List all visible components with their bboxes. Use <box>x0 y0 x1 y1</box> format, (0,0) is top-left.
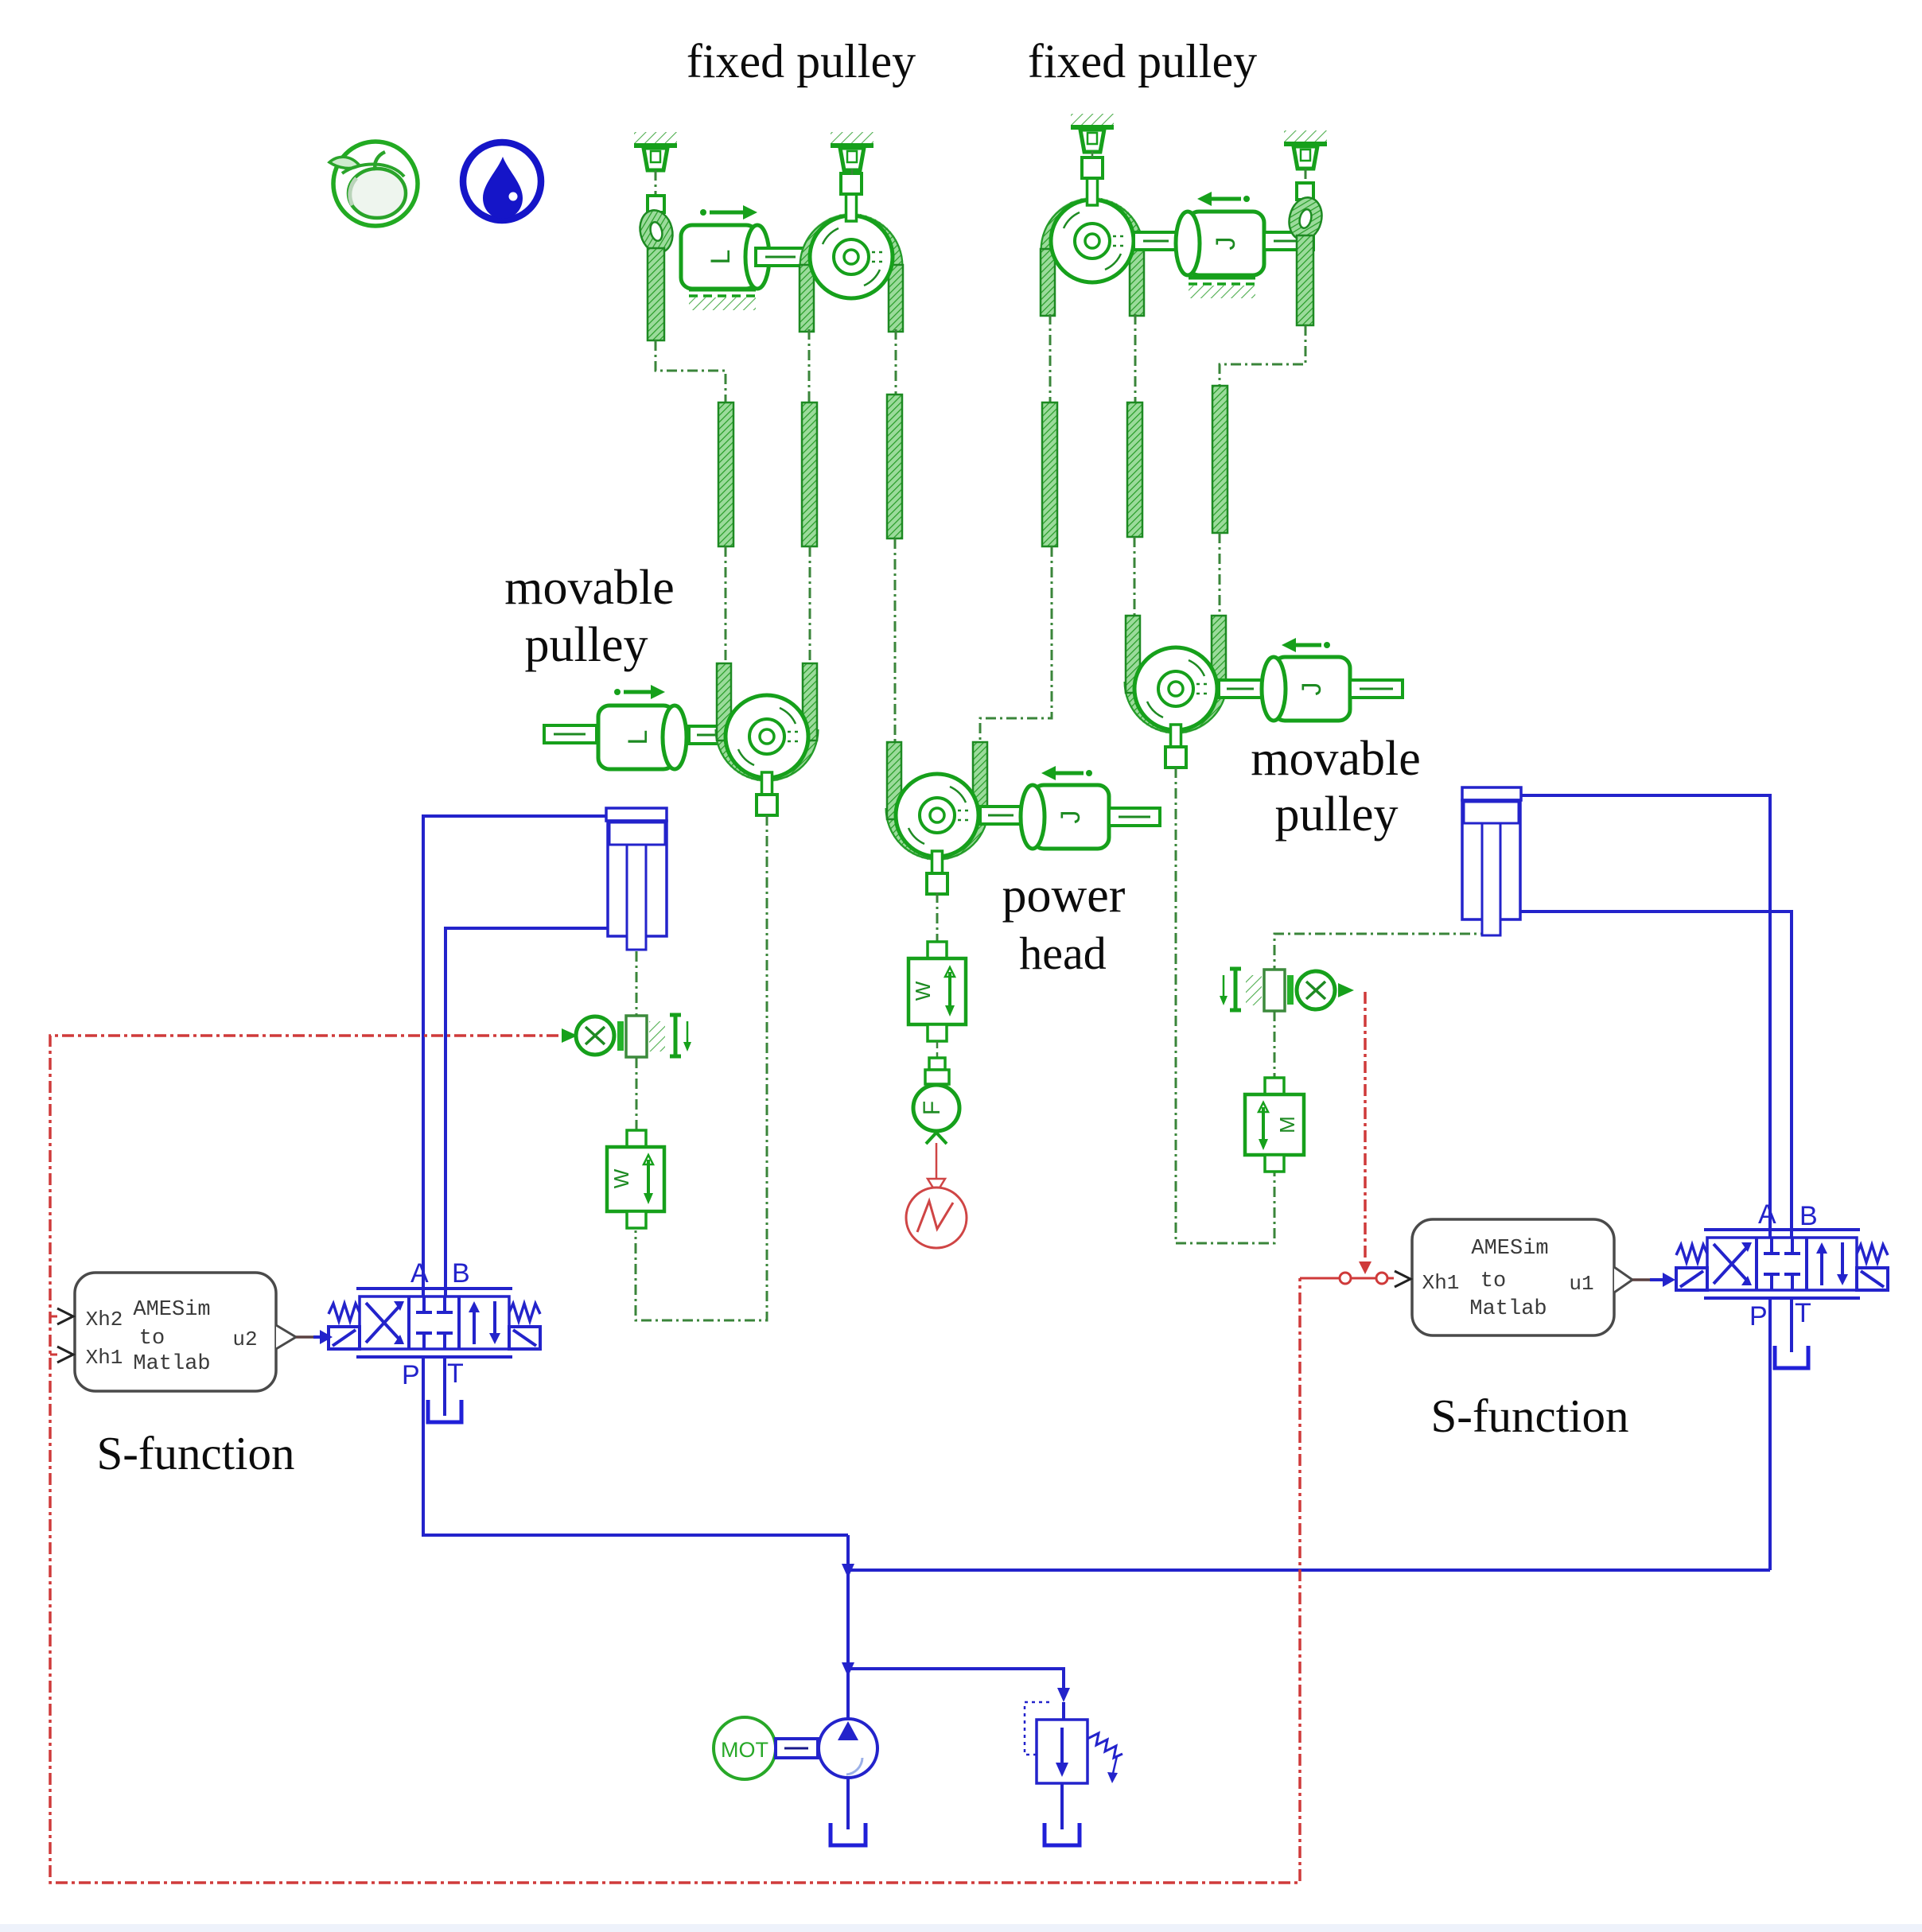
pipe: left valve P to pump <box>423 1357 848 1535</box>
signal stub to Xh2 <box>50 1316 57 1318</box>
left hydraulic cylinder <box>606 808 667 950</box>
shaft: pulley 2 to mass J2 <box>1134 232 1178 250</box>
rope spring F <box>1212 386 1228 533</box>
wire: anchor2 to pulley1 stem <box>851 169 854 177</box>
rope spring E <box>1127 402 1142 537</box>
bottom margin tint <box>0 1924 1922 1932</box>
rope spring D <box>1042 402 1057 546</box>
svg-text:W: W <box>609 1168 633 1188</box>
svg-text:Xh1: Xh1 <box>86 1346 123 1370</box>
svg-text:Matlab: Matlab <box>1469 1297 1547 1321</box>
zero speed reference bar (right) <box>1220 969 1241 1010</box>
wire: eyelet rope 1 elbow to rope A <box>656 340 726 402</box>
wire: left cylinder rod to sensor <box>636 951 638 1015</box>
svg-text:L: L <box>623 730 653 745</box>
wire: right movable pulley stem down elbow to mass M <box>1176 768 1274 1243</box>
arrow above mass J2 (pointing left) <box>1197 192 1250 206</box>
left displacement sensor group <box>562 951 691 1057</box>
svg-text:MOT: MOT <box>721 1738 768 1762</box>
wire: pulley2 right rope down <box>1134 314 1137 402</box>
svg-text:AMESim: AMESim <box>1471 1237 1548 1261</box>
svg-text:movable: movable <box>1251 732 1421 786</box>
wire: sensor to mass Wa <box>636 1058 638 1130</box>
wire: pulley2 left rope down <box>1049 314 1052 402</box>
shaft: motor to pump <box>776 1739 818 1758</box>
right movable pulley <box>1125 616 1228 768</box>
svg-text:B: B <box>1799 1201 1818 1231</box>
arrow above mass L1 <box>700 205 757 220</box>
fixed displacement pump <box>819 1719 877 1778</box>
pipe: left valve T to tank <box>443 1357 446 1416</box>
arrow above mass J5 <box>1282 638 1330 652</box>
sensor wall hatch <box>649 1021 665 1052</box>
mass L1 (fixed pulley 1 load) <box>681 225 769 289</box>
sensor body rect <box>626 1016 647 1057</box>
ceiling anchor 3 (above fixed pulley 2) <box>1071 114 1114 152</box>
right hydraulic cylinder <box>1462 787 1521 935</box>
rope hook square 4 <box>1297 183 1313 200</box>
arrow above power head mass J <box>1041 766 1092 780</box>
mass block Wa (left) <box>607 1130 664 1228</box>
S-function block (right) <box>1395 1219 1675 1335</box>
wire: anchor4 to hook <box>1305 169 1307 183</box>
shaft: mass J2 free end <box>1264 232 1313 250</box>
svg-text:S-function: S-function <box>96 1427 294 1479</box>
wire: rope D elbow to power head pulley right <box>980 546 1052 746</box>
svg-text:power: power <box>1002 869 1126 923</box>
svg-text:Matlab: Matlab <box>133 1352 210 1376</box>
tank (right valve) <box>1775 1346 1808 1368</box>
svg-text:Xh1: Xh1 <box>1422 1271 1460 1295</box>
wire: anchor1 to hook <box>655 170 657 196</box>
shaft: mass J5 free end <box>1350 680 1403 698</box>
pipe: left cylinder head to valve A <box>423 816 606 1296</box>
link squares above force source <box>929 1058 945 1070</box>
wire: rope F to right movable pulley <box>1219 533 1221 616</box>
svg-text:J: J <box>1056 811 1086 824</box>
sensor wall hatch (right) <box>1246 975 1262 1005</box>
rope eyelet 4 <box>1285 194 1326 243</box>
svg-text:F: F <box>919 1101 945 1115</box>
sensor link bar (right) <box>1287 975 1294 1005</box>
svg-text:T: T <box>1795 1298 1811 1328</box>
shaft: power head pulley to mass J4 <box>980 807 1021 824</box>
ceiling anchor 2 (above fixed pulley 1) <box>831 132 873 170</box>
shaft: right movable pulley to mass J5 <box>1219 680 1262 698</box>
junction to right valve <box>842 1564 854 1578</box>
wire: eyelet rope 4 elbow to rope F <box>1220 325 1305 386</box>
svg-text:pulley: pulley <box>525 618 648 672</box>
wire: pulley1 left rope down <box>808 329 811 402</box>
svg-text:head: head <box>1019 927 1107 979</box>
mass J5 (right movable pulley load) <box>1262 657 1350 721</box>
icon: apple (mechanical library) <box>329 142 418 226</box>
rope eyelet 1 <box>636 207 677 256</box>
pipe: right valve T to tank <box>1790 1298 1793 1352</box>
ground under mass L1 <box>689 288 756 292</box>
svg-text:L: L <box>706 250 736 265</box>
svg-text:W: W <box>911 981 935 1001</box>
pipe: right valve P down <box>1768 1298 1772 1570</box>
svg-text:fixed pulley: fixed pulley <box>1028 35 1257 87</box>
S-function block (left) <box>57 1273 333 1391</box>
signal wire to F source <box>936 1143 938 1179</box>
shaft: mass J4 free end <box>1109 808 1160 826</box>
tank (pump) <box>831 1823 866 1845</box>
wire: pulley1 right rope down <box>895 329 897 395</box>
pipe: right cylinder head to valve A <box>1521 795 1770 1238</box>
arrow above mass L3 <box>614 685 665 699</box>
mass block M (right) <box>1245 1078 1304 1172</box>
ceiling anchor 1 (above left rope end) <box>634 132 677 170</box>
wire: mass W to link <box>936 1041 939 1058</box>
ceiling anchor 4 (right rope end) <box>1284 130 1327 169</box>
wire: rope E to right movable pulley <box>1134 537 1136 616</box>
rope spring B <box>802 402 817 546</box>
rope spring C <box>887 395 902 538</box>
tank (left valve) <box>428 1400 461 1422</box>
fixed pulley 1 <box>800 173 903 332</box>
left movable pulley <box>716 663 819 815</box>
svg-text:J: J <box>1297 682 1327 696</box>
svg-text:M: M <box>1275 1116 1299 1133</box>
control signal loop (red dash-dot) <box>50 1036 1300 1883</box>
wire: power head stem to mass W <box>936 892 939 942</box>
force source F <box>913 1085 959 1131</box>
svg-text:T: T <box>447 1359 464 1389</box>
pipe: right cylinder rod side to valve B <box>1520 912 1792 1238</box>
shaft: mass L3 to left movable pulley <box>689 726 729 744</box>
wire: rope C to power head pulley <box>894 538 897 744</box>
position transducer X (right) <box>1297 971 1335 1009</box>
svg-text:fixed pulley: fixed pulley <box>687 35 916 87</box>
svg-text:to: to <box>1480 1269 1506 1293</box>
wire: sensor to mass M <box>1274 1011 1276 1078</box>
pipe: pump riser <box>846 1535 850 1720</box>
pipe: left cylinder rod side to valve B <box>445 928 608 1296</box>
wire: right cylinder rod to sensor <box>1274 934 1491 970</box>
mass block W (power head) <box>908 942 966 1041</box>
svg-text:S-function: S-function <box>1430 1390 1628 1442</box>
signal line into right S-function <box>1300 1277 1394 1280</box>
sensor body rect (right) <box>1264 970 1285 1011</box>
rope segment below eyelet 4 <box>1297 235 1313 325</box>
svg-text:P: P <box>402 1360 420 1390</box>
svg-text:J: J <box>1211 237 1241 251</box>
wire: rope B to left movable pulley <box>809 546 811 663</box>
sensor output arrow (right) <box>1338 983 1354 997</box>
shaft: mass L3 free end (left) <box>544 725 597 743</box>
svg-text:u1: u1 <box>1569 1272 1593 1296</box>
mass J4 (power head inertia) <box>1021 785 1109 849</box>
rope hook square 1 <box>648 196 664 212</box>
svg-text:B: B <box>452 1258 470 1289</box>
svg-text:pulley: pulley <box>1275 787 1399 842</box>
ground under mass J2 <box>1189 276 1255 280</box>
zero speed reference bar <box>670 1015 691 1056</box>
svg-text:Xh2: Xh2 <box>86 1308 123 1331</box>
signal stub to Xh1 <box>50 1354 57 1356</box>
power head pulley <box>886 742 989 894</box>
icon: hydraulic drop <box>463 142 541 220</box>
svg-text:AMESim: AMESim <box>133 1298 210 1322</box>
right servo valve <box>1676 1230 1888 1298</box>
junction to relief valve <box>842 1662 854 1677</box>
signal line from right sensor <box>1364 992 1367 1263</box>
svg-text:A: A <box>410 1258 429 1289</box>
rope segment below eyelet 1 <box>648 248 664 340</box>
sensor link bar <box>617 1021 624 1051</box>
wire: left movable pulley stem down and left to Wa <box>636 815 767 1320</box>
tank (relief valve) <box>1045 1823 1080 1845</box>
relief valve <box>1025 1688 1122 1829</box>
position transducer X (left) <box>576 1017 614 1055</box>
wire: anchor3 to pulley2 stem <box>1091 151 1094 159</box>
left servo valve <box>329 1289 540 1357</box>
svg-text:P: P <box>1749 1301 1768 1331</box>
svg-text:u2: u2 <box>232 1328 257 1351</box>
mass J2 (fixed pulley 2 load) <box>1176 212 1264 275</box>
wire: rope A to left movable pulley <box>725 546 727 663</box>
svg-text:A: A <box>1758 1199 1776 1230</box>
svg-text:movable: movable <box>504 561 675 615</box>
mass L3 (left movable pulley load) <box>598 706 687 769</box>
shaft: mass L1 to pulley 1 <box>756 248 808 266</box>
rope spring A <box>718 402 733 546</box>
signal source (ramp) <box>906 1188 967 1248</box>
pipe: pump to tank <box>846 1778 850 1829</box>
sensor input arrow (left) <box>562 1028 578 1043</box>
fixed pulley 2 <box>1041 157 1144 316</box>
electric motor MOT <box>714 1717 776 1779</box>
right displacement sensor group <box>1220 934 1491 1011</box>
svg-text:to: to <box>139 1327 165 1351</box>
